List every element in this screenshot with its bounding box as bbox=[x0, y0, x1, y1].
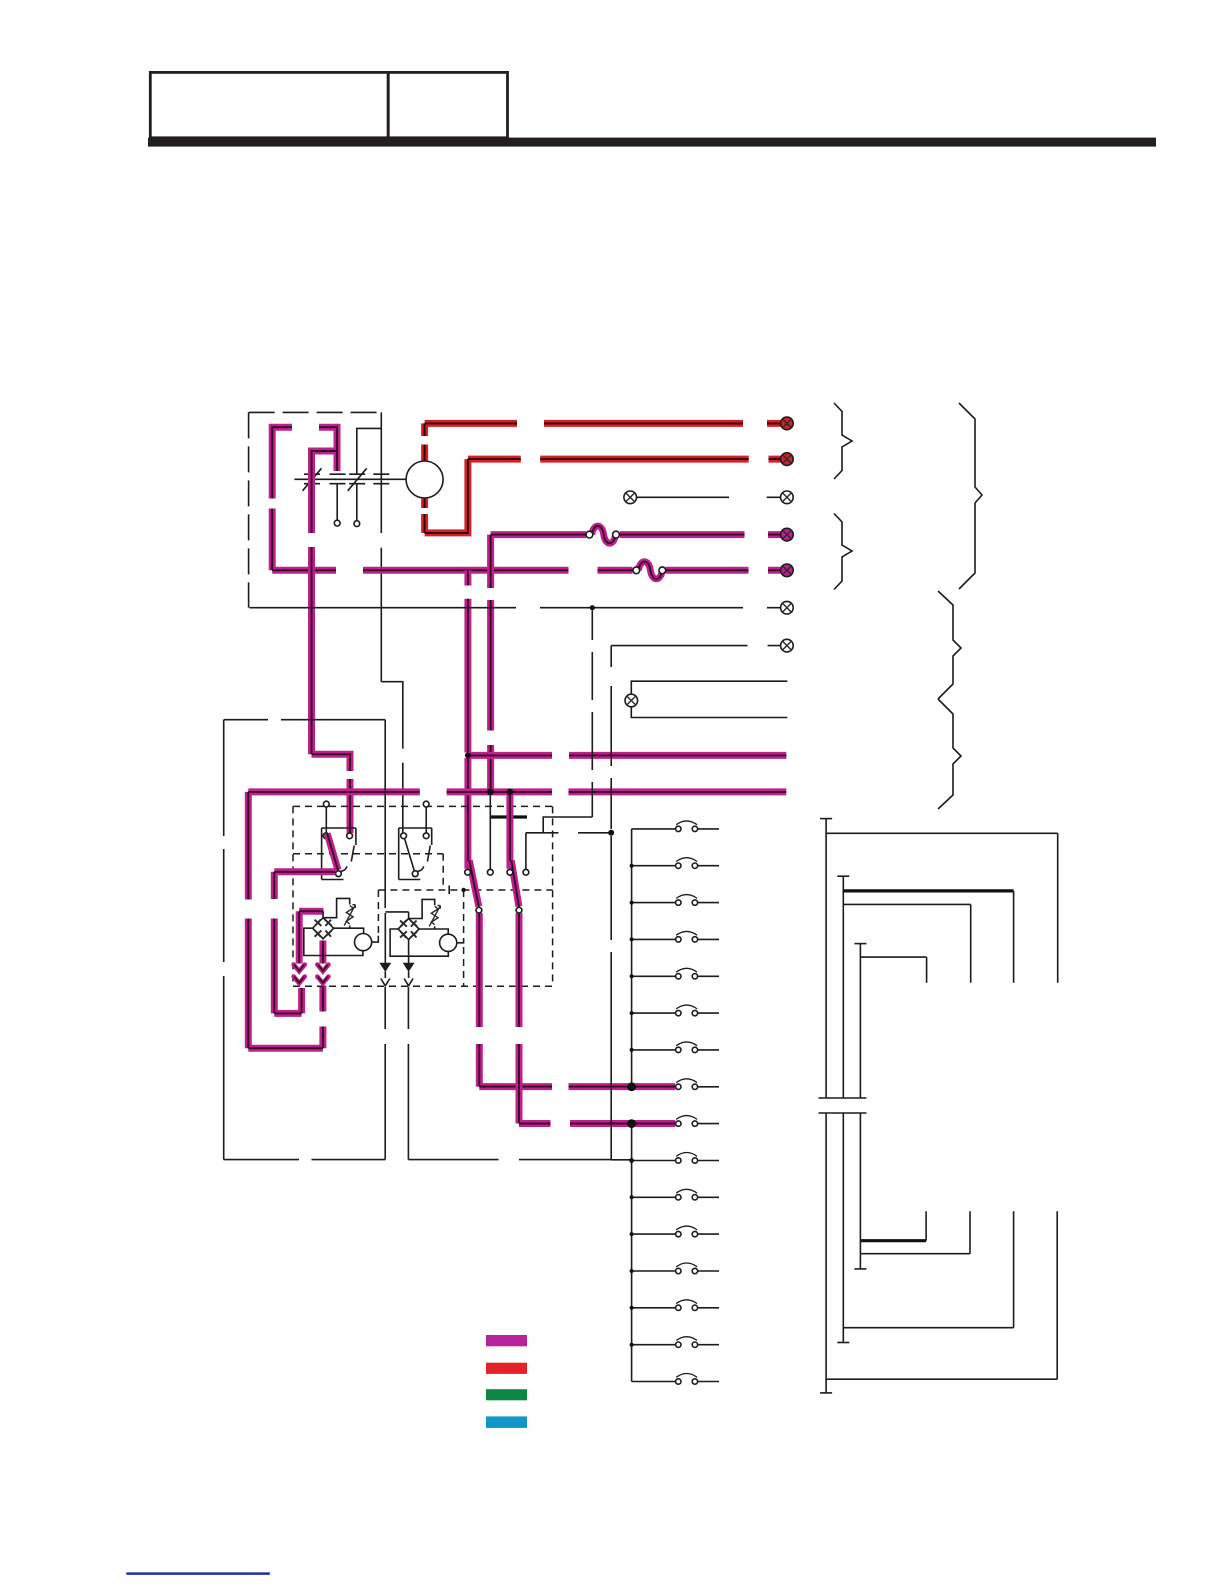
harness thick branch lower bbox=[860, 1239, 926, 1242]
motor module A bridge diamond bbox=[313, 918, 334, 939]
switch row 2 bbox=[632, 858, 719, 866]
switch arm 2 (magenta slant) bbox=[511, 861, 519, 907]
harness thick branch upper bbox=[843, 889, 1013, 892]
wire: magenta W1 left riser + row5 feed bbox=[272, 427, 780, 570]
terminal circle below S2 bbox=[334, 520, 340, 526]
harness rail C bbox=[854, 944, 926, 1098]
lamp interior (left column) bbox=[625, 694, 638, 707]
contact S2 bbox=[330, 474, 346, 484]
arrow out module A pin2 bbox=[317, 965, 328, 984]
module A circuit breaker bbox=[344, 905, 355, 926]
title block cell 2 bbox=[388, 72, 507, 137]
wire: magenta link relay1 fixed contact to module A bbox=[274, 872, 335, 1014]
wire: motor B right link bbox=[457, 938, 464, 943]
wire: magenta row4 feed + riser x=490 bbox=[491, 535, 781, 790]
harness rail A lower bbox=[820, 1113, 1057, 1393]
switch row 11 bbox=[632, 1189, 719, 1197]
arrow out module A pin1 bbox=[294, 965, 305, 984]
relay R1 connector pin + stem bbox=[323, 801, 329, 807]
switch row 5 bbox=[632, 968, 719, 976]
brace right mid bbox=[938, 591, 961, 699]
wire: module A bridge to motor top bbox=[334, 928, 364, 933]
wire: row6 black (box bottom to lamp 6) bbox=[249, 607, 780, 609]
ignition key circle bbox=[406, 461, 443, 498]
switch row 7 bbox=[632, 1042, 719, 1050]
harness branch rise lower bbox=[925, 1211, 927, 1240]
footer blue rule bbox=[126, 1572, 269, 1575]
wire: module B breaker staircase bbox=[409, 899, 435, 929]
switch row 16 bbox=[632, 1374, 719, 1382]
relay R1 armature (magenta) bbox=[327, 834, 338, 871]
component box 2 outline bbox=[408, 646, 631, 1160]
wire: module B input gamma (black) bbox=[385, 912, 408, 919]
switch row 6 bbox=[632, 1005, 719, 1013]
junction dots on y=792 bbox=[487, 789, 494, 796]
junction dot row755/x468 bbox=[465, 752, 471, 758]
wire: S3 up-link to right edge bbox=[357, 428, 382, 474]
wire: magenta riser arm2 to row9 bbox=[519, 913, 675, 1124]
fuse on row4 bbox=[586, 526, 619, 543]
contact S3 (with wiper slash) bbox=[348, 468, 367, 491]
switch arm lower terminals bbox=[476, 907, 482, 913]
brace right lower bbox=[938, 699, 961, 809]
lamp row3 left bbox=[624, 491, 637, 504]
wire: interior lamp loop bbox=[631, 681, 787, 717]
wire: module A motor loop bbox=[304, 928, 363, 955]
relay R1 body bbox=[322, 828, 356, 880]
dashed divider x=378.4 bbox=[377, 890, 379, 934]
fuse on row5 bbox=[633, 562, 666, 579]
wire: magenta mid row y=755 bbox=[468, 752, 786, 759]
harness rail B bbox=[837, 876, 970, 1098]
brace rows1-2 bbox=[834, 403, 852, 479]
harness rail A bbox=[820, 819, 1058, 1098]
legend swatch magenta bbox=[486, 1335, 527, 1346]
brace rows4-5 bbox=[834, 514, 852, 590]
junction dot on box edge bbox=[608, 830, 614, 836]
contact S4 bbox=[373, 474, 389, 484]
wire: magenta branch x=468 from row5 to contact bbox=[464, 570, 471, 869]
switch row 9 bbox=[676, 1116, 719, 1124]
terminal circle below S3 bbox=[354, 521, 360, 527]
lamp 1 (red) bbox=[781, 417, 794, 430]
switch row 15 bbox=[632, 1337, 719, 1345]
header rule bar bbox=[148, 138, 1156, 147]
lamp 4 (magenta) bbox=[781, 528, 794, 541]
lamp 5 (magenta) bbox=[781, 564, 794, 577]
ignition switch box (dashed) bbox=[249, 412, 382, 607]
wire: magenta main bus y=792 with left C-loop bbox=[248, 792, 786, 1048]
lamp 3 (white) bbox=[781, 491, 794, 504]
harness rail B lower bbox=[837, 1113, 1013, 1343]
legend swatch green bbox=[486, 1389, 527, 1400]
switch row 8 bbox=[676, 1079, 719, 1087]
switch arm 1 (magenta slant) bbox=[469, 861, 479, 907]
connector bus vertical bbox=[631, 829, 633, 1382]
wire: magenta W2 riser to relay1 bbox=[312, 427, 351, 833]
harness branch drop upper bbox=[1013, 891, 1015, 983]
wire: motor A right link bbox=[372, 936, 379, 942]
switch row 14 bbox=[632, 1300, 719, 1308]
lamp 6 (white) bbox=[781, 601, 794, 614]
relay R2 connector pin + stem bbox=[423, 801, 429, 807]
wire: S3 drop to open terminal bbox=[356, 484, 358, 521]
motor B bbox=[440, 934, 457, 951]
motor module B bridge diamond bbox=[398, 919, 419, 940]
wire: module A breaker staircase bbox=[323, 898, 350, 928]
contact S1 (with wiper slash) bbox=[303, 468, 322, 491]
dashed divider x=463.6 bbox=[463, 890, 465, 935]
switch row 10 bbox=[632, 1153, 719, 1161]
legend swatch cyan bbox=[486, 1416, 527, 1428]
motor A bbox=[355, 934, 372, 951]
relay R2 body bbox=[399, 828, 432, 880]
wire: red feed row2 (key circle bottom loop to lamp 2) bbox=[425, 459, 781, 533]
switch row 13 bbox=[632, 1263, 719, 1271]
wire: y=833 link to contact4 bbox=[526, 833, 611, 870]
legend swatch red bbox=[486, 1363, 527, 1374]
contact terminals row bbox=[465, 869, 471, 875]
switch row 12 bbox=[632, 1226, 719, 1234]
relay R2 armature (black) bbox=[405, 839, 415, 872]
wire: black drop x=490 to contact2 bbox=[489, 795, 491, 870]
harness break bars bbox=[819, 1098, 867, 1113]
wire: module B output2 bbox=[408, 940, 410, 964]
wire: module B motor loop bbox=[390, 929, 448, 956]
relay unit dashed box bbox=[293, 806, 553, 986]
wire: gray staircase from row6 junction bbox=[543, 610, 592, 833]
lamp 2 (red) bbox=[781, 453, 794, 466]
harness rail C lower bbox=[854, 1113, 970, 1269]
wire: step to x=403 bbox=[381, 682, 403, 833]
component box 1 outline bbox=[224, 720, 386, 1160]
junction dot row6 bbox=[590, 605, 595, 610]
module B circuit breaker bbox=[429, 905, 440, 926]
switch row 1 bbox=[632, 821, 719, 829]
module B diode marks bbox=[400, 920, 417, 937]
wire: ignition switch common line bbox=[294, 478, 406, 480]
relay R2 pins bbox=[401, 833, 407, 839]
wire: S2 drop to open terminal bbox=[336, 484, 338, 521]
module A diode marks bbox=[315, 920, 332, 937]
relay R1 pins bbox=[323, 833, 329, 839]
switch row 3 bbox=[632, 895, 719, 903]
wire: thick link y=817 bbox=[490, 815, 527, 818]
wire: magenta module A output2 bbox=[319, 941, 326, 964]
wire: magenta module A input gamma bbox=[299, 911, 323, 963]
dashed partition node bbox=[461, 888, 465, 892]
lamp 7 (white) bbox=[781, 639, 794, 652]
arrow out module B pin1 bbox=[381, 913, 390, 986]
wire: row7 to lamp 7 bbox=[611, 645, 780, 647]
dashed partition y=854 bbox=[293, 854, 553, 890]
wire: row3 link between lamps bbox=[637, 496, 781, 498]
title block cell 1 bbox=[150, 72, 388, 137]
arrow out module B pin2 bbox=[404, 964, 413, 986]
brace large right upper bbox=[959, 403, 982, 589]
wire: long vertical x=381 (box right edge down to step) bbox=[380, 412, 382, 681]
wire: magenta drop x=510 to contact3 bbox=[506, 795, 513, 869]
wire: red feed row1 (key circle top to lamp 1) bbox=[425, 423, 781, 460]
wire: magenta riser arm1 to row8 bbox=[479, 913, 675, 1087]
wire: module B bridge to motor top bbox=[419, 929, 448, 934]
switch row 4 bbox=[632, 931, 719, 939]
